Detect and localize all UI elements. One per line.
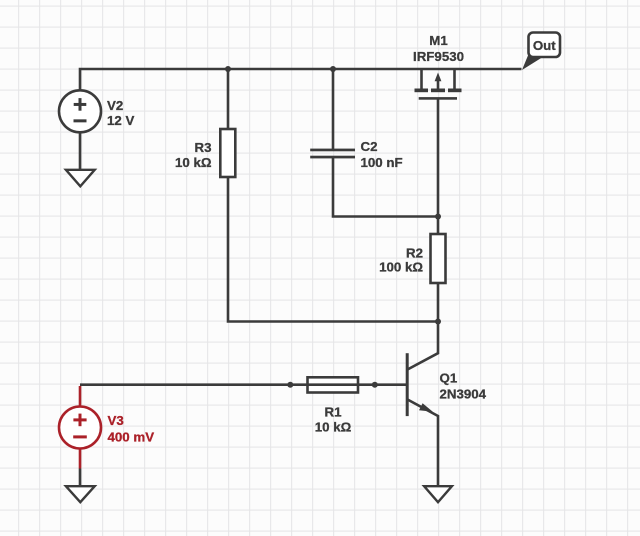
svg-text:100 kΩ: 100 kΩ <box>379 260 423 275</box>
svg-text:100 nF: 100 nF <box>361 155 403 170</box>
svg-text:V3: V3 <box>108 413 124 428</box>
svg-text:C2: C2 <box>361 139 378 154</box>
svg-text:400 mV: 400 mV <box>108 430 155 445</box>
svg-text:R3: R3 <box>195 140 212 155</box>
svg-text:Out: Out <box>533 38 556 53</box>
svg-text:M1: M1 <box>429 33 448 48</box>
svg-text:12 V: 12 V <box>107 113 134 128</box>
svg-text:R2: R2 <box>406 245 423 260</box>
svg-text:10 kΩ: 10 kΩ <box>315 419 352 434</box>
svg-text:IRF9530: IRF9530 <box>413 49 464 64</box>
svg-text:2N3904: 2N3904 <box>440 386 487 401</box>
svg-text:R1: R1 <box>325 404 343 419</box>
svg-text:V2: V2 <box>107 98 123 113</box>
svg-text:10 kΩ: 10 kΩ <box>175 155 212 170</box>
svg-text:Q1: Q1 <box>440 371 458 386</box>
